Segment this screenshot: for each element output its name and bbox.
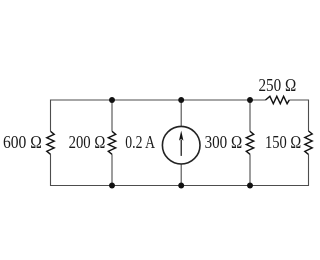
svg-text:0.2 A: 0.2 A	[125, 132, 155, 152]
current source I1 0.2 A circle	[162, 126, 200, 164]
resistor R4 150 ohm	[305, 131, 312, 154]
wire top rail	[51, 99, 266, 101]
node dot top of 200-ohm branch	[109, 97, 115, 103]
svg-text:200 Ω: 200 Ω	[69, 132, 106, 152]
node dot bottom of 200-ohm branch	[109, 183, 115, 189]
resistor R2 200 ohm	[108, 131, 115, 154]
wire left branch stubs	[50, 100, 52, 187]
wire 300-ohm branch stubs	[249, 100, 251, 186]
resistor R3 300 ohm	[246, 131, 253, 154]
svg-text:150 Ω: 150 Ω	[265, 132, 301, 152]
resistor R5 250 ohm (horizontal)	[266, 96, 290, 103]
wire 200-ohm branch stubs	[111, 100, 113, 186]
current source arrow shaft	[180, 140, 182, 156]
svg-text:600 Ω: 600 Ω	[3, 132, 42, 152]
wire right branch stubs	[308, 100, 310, 187]
wire current-source branch stubs	[180, 100, 182, 186]
svg-text:300 Ω: 300 Ω	[205, 132, 243, 152]
node dot bottom of current-source branch	[178, 183, 184, 189]
wire top-right segment after 250 ohm	[289, 99, 308, 101]
resistor R1 600 ohm	[47, 131, 54, 154]
node dot top of current-source branch	[178, 97, 184, 103]
current source arrowhead	[179, 131, 183, 141]
svg-text:250 Ω: 250 Ω	[259, 75, 297, 95]
node dot top of 300-ohm branch	[247, 97, 253, 103]
wire bottom rail	[51, 185, 309, 187]
node dot bottom of 300-ohm branch	[247, 183, 253, 189]
